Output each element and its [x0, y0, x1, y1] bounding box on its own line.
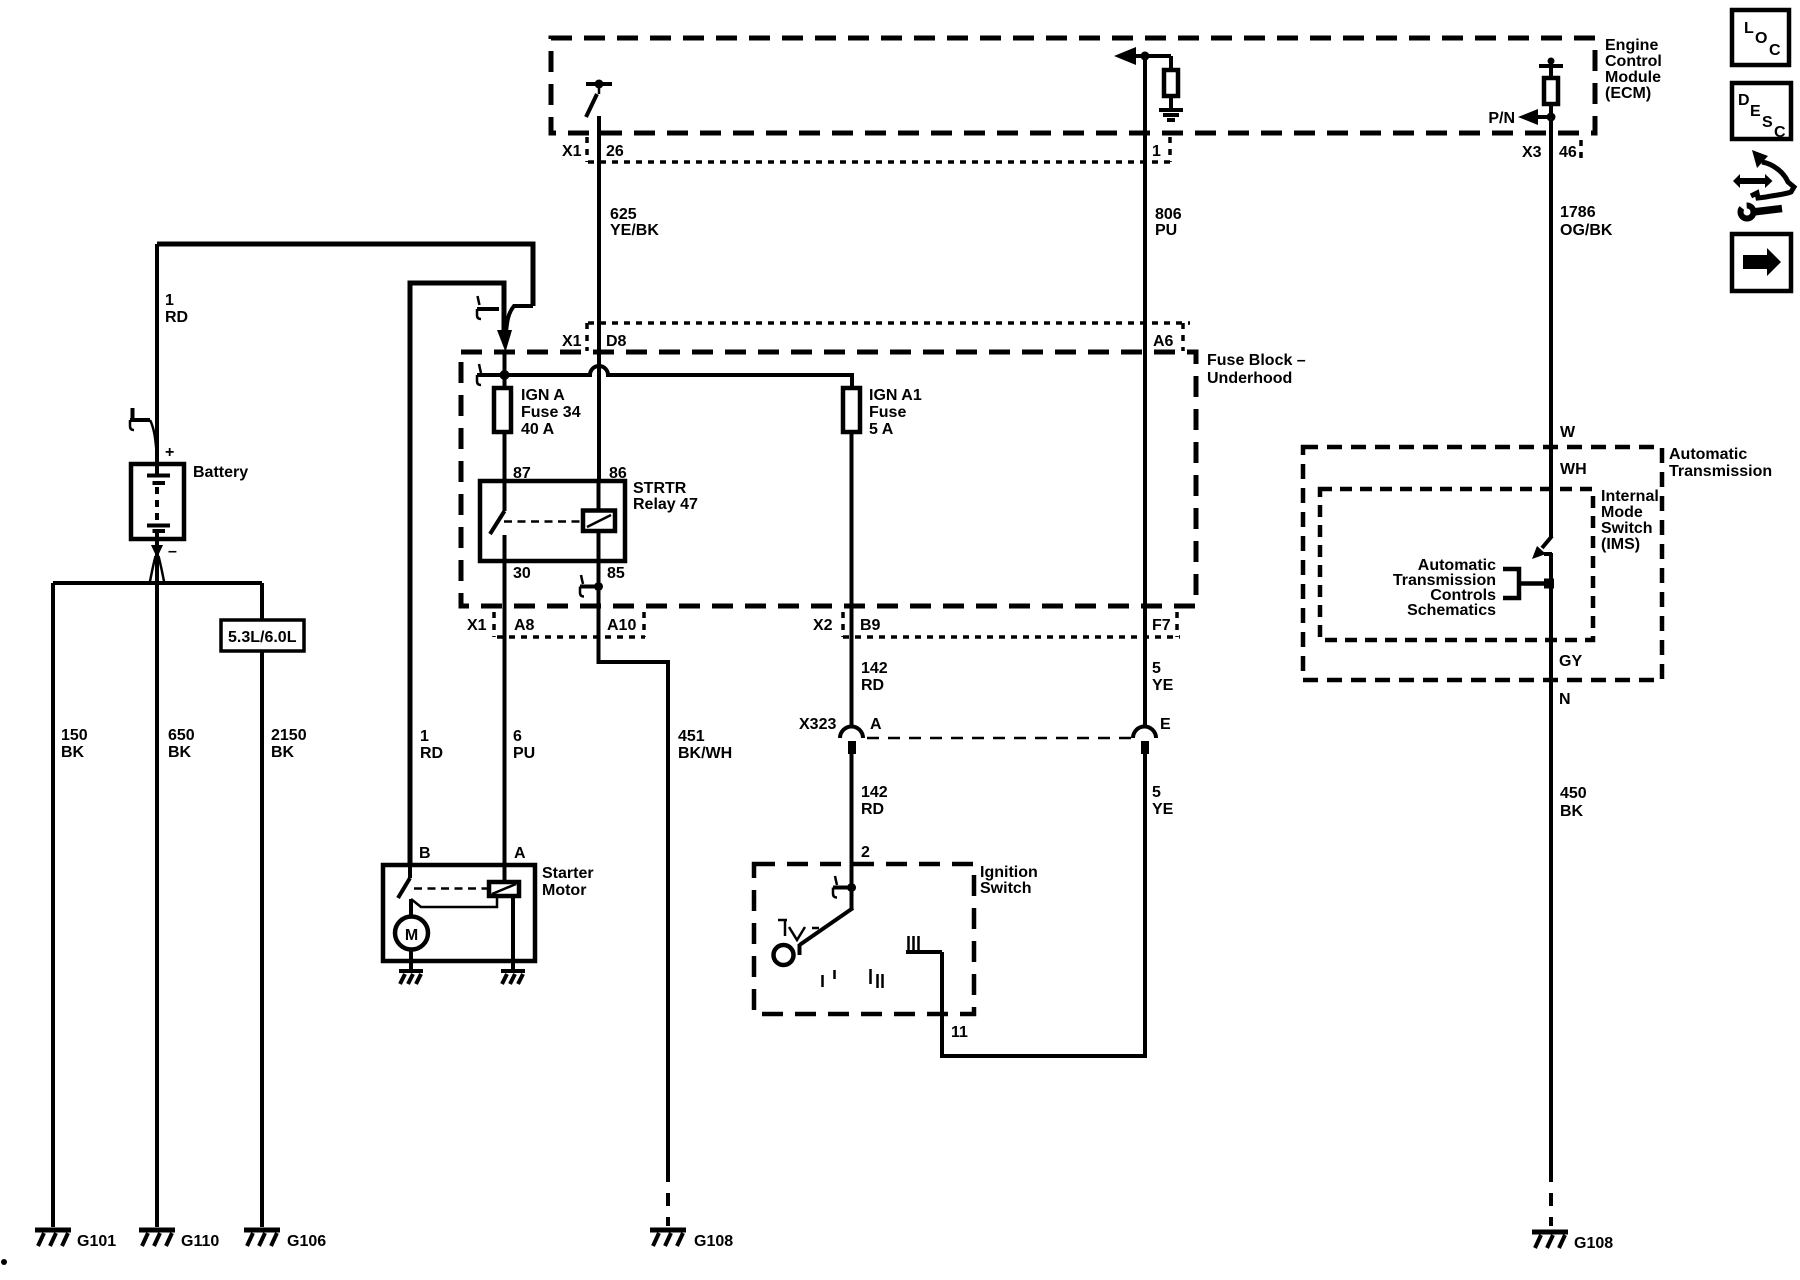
- IMS inner dashed box: [1320, 489, 1593, 640]
- ground G106: [244, 1230, 280, 1246]
- svg-text:5: 5: [1152, 784, 1161, 801]
- svg-text:Fuse 34: Fuse 34: [521, 404, 581, 421]
- svg-text:O: O: [1755, 30, 1767, 47]
- svg-text:YE: YE: [1152, 677, 1174, 694]
- svg-text:S: S: [1762, 114, 1773, 131]
- position mark I: [823, 970, 835, 987]
- svg-text:Internal: Internal: [1601, 488, 1659, 505]
- wire 806 PU (x=1145 from ECM to connector E): [1143, 56, 1147, 727]
- starter coil link dashed: [414, 887, 489, 890]
- ground starter motor left: [399, 971, 423, 984]
- svg-text:150: 150: [61, 727, 88, 744]
- svg-text:Switch: Switch: [1601, 520, 1653, 537]
- wire battery positive feed (1 RD) top run: [157, 244, 533, 306]
- svg-text:142: 142: [861, 784, 888, 801]
- svg-text:142: 142: [861, 660, 888, 677]
- svg-text:Module: Module: [1605, 69, 1661, 86]
- label 451 BK/WH: [678, 728, 732, 762]
- label 1 RD (starter B wire): [420, 728, 443, 762]
- in-line connector hook at fuse block feed: [477, 364, 481, 385]
- label 6 PU: [513, 728, 535, 762]
- label 142 RD (lower): [861, 784, 888, 818]
- svg-text:G106: G106: [287, 1233, 326, 1250]
- svg-text:650: 650: [168, 727, 195, 744]
- svg-text:BK: BK: [61, 744, 85, 761]
- ignition switch contact circle: [774, 945, 794, 965]
- battery in-line connector hook at positive: [130, 408, 157, 452]
- splice at battery negative: [150, 545, 165, 584]
- icon LOC box: [1732, 10, 1789, 65]
- starter solenoid coil: [489, 882, 519, 896]
- label Starter Motor: [542, 865, 594, 899]
- ECM module dashed box: [551, 38, 1595, 133]
- label 806 PU: [1155, 206, 1182, 239]
- label STRTR Relay 47: [633, 480, 698, 513]
- svg-text:M: M: [405, 927, 418, 944]
- svg-text:B: B: [419, 845, 431, 862]
- wire branch to starter B (1 RD): [410, 283, 504, 865]
- svg-text:11: 11: [951, 1024, 968, 1041]
- ground starter solenoid right: [501, 971, 525, 984]
- wire solenoid to ground: [511, 896, 515, 970]
- svg-text:N: N: [1559, 691, 1571, 708]
- junction node at ATCS tap: [1544, 579, 1554, 589]
- label Internal Mode Switch (IMS): [1601, 488, 1659, 553]
- wire battery negative bus: [53, 581, 262, 585]
- label 650 BK: [168, 727, 195, 761]
- label Automatic Transmission Controls Schematics: [1393, 557, 1496, 619]
- svg-text:OG/BK: OG/BK: [1560, 222, 1613, 239]
- ignition switch blade: [800, 888, 854, 956]
- svg-text:X1: X1: [562, 143, 582, 160]
- svg-text:Engine: Engine: [1605, 37, 1658, 54]
- in-line connector hook at ignition feed: [833, 876, 856, 898]
- svg-text:P/N: P/N: [1488, 110, 1515, 127]
- svg-text:D8: D8: [606, 333, 627, 350]
- relay coil: [583, 511, 615, 532]
- svg-text:5.3L/6.0L: 5.3L/6.0L: [228, 629, 297, 646]
- svg-text:L: L: [1744, 20, 1754, 37]
- svg-text:806: 806: [1155, 206, 1182, 223]
- fuse IGN A Fuse 34 40 A: [494, 388, 511, 432]
- svg-text:D: D: [1738, 92, 1750, 109]
- wire ground branch G101: [51, 583, 55, 1227]
- Fuse Block - Underhood dashed box: [461, 352, 1196, 606]
- starter solenoid switch blade: [398, 865, 410, 898]
- wire ground branch G110: [155, 553, 159, 1227]
- svg-text:1786: 1786: [1560, 204, 1596, 221]
- svg-text:C: C: [1774, 124, 1786, 141]
- wire 142 RD fuse IGN A1 to connector A: [850, 432, 854, 727]
- relay switch blade: [490, 481, 505, 561]
- wire 1786 OG/BK (x=1551 down to IMS switch): [1549, 133, 1553, 537]
- resistor inside ECM on 1786 circuit: [1544, 78, 1558, 104]
- svg-text:A8: A8: [514, 617, 535, 634]
- splice funnel into fuse block feed: [497, 306, 533, 352]
- relay coil link dashed: [504, 520, 583, 523]
- svg-text:26: 26: [606, 143, 624, 160]
- svg-text:RD: RD: [861, 801, 884, 818]
- battery: [131, 464, 184, 545]
- svg-text:RD: RD: [861, 677, 884, 694]
- page artifact dot: [1, 1259, 7, 1265]
- svg-text:X323: X323: [799, 716, 836, 733]
- label 1786 OG/BK: [1560, 204, 1613, 239]
- position mark III: [909, 936, 919, 950]
- label 625 YE/BK: [610, 206, 659, 239]
- svg-text:G110: G110: [181, 1233, 219, 1250]
- svg-text:Schematics: Schematics: [1407, 602, 1496, 619]
- svg-text:RD: RD: [420, 745, 443, 762]
- svg-text:Transmission: Transmission: [1669, 463, 1772, 480]
- bracket to Automatic Transmission Controls Schematics: [1503, 569, 1548, 598]
- in-line connector hook at splice: [477, 296, 499, 319]
- connector X323 pin A: [840, 727, 863, 755]
- svg-text:(ECM): (ECM): [1605, 85, 1651, 102]
- label Fuse Block - Underhood: [1207, 352, 1306, 387]
- svg-text:IGN A: IGN A: [521, 387, 565, 404]
- svg-text:Starter: Starter: [542, 865, 594, 882]
- svg-text:F7: F7: [1152, 617, 1171, 634]
- svg-text:BK/WH: BK/WH: [678, 745, 732, 762]
- svg-text:E: E: [1750, 103, 1761, 120]
- svg-text:WH: WH: [1560, 461, 1587, 478]
- svg-text:BK: BK: [168, 744, 192, 761]
- wire dashed tail to G108 (middle): [666, 1169, 670, 1226]
- svg-text:85: 85: [607, 565, 625, 582]
- svg-text:5 A: 5 A: [869, 421, 894, 438]
- wire 142 RD connector A to ignition switch: [850, 754, 854, 889]
- svg-text:C: C: [1769, 42, 1781, 59]
- svg-text:(IMS): (IMS): [1601, 536, 1640, 553]
- wire 1786 inside ECM: [1549, 104, 1553, 133]
- tag 5.3L/6.0L: [221, 620, 304, 651]
- icon wiring harness with wrench: [1733, 150, 1794, 219]
- label Engine Control Module (ECM): [1605, 37, 1662, 102]
- svg-text:RD: RD: [165, 309, 188, 326]
- wire dashed tail to G108 (right): [1549, 1169, 1553, 1226]
- svg-text:5: 5: [1152, 660, 1161, 677]
- ground G108 (middle): [650, 1230, 686, 1246]
- ground G101: [35, 1230, 71, 1246]
- svg-text:625: 625: [610, 206, 637, 223]
- svg-text:Fuse: Fuse: [869, 404, 906, 421]
- svg-text:G101: G101: [77, 1233, 116, 1250]
- svg-text:–: –: [168, 543, 177, 560]
- svg-text:BK: BK: [1560, 803, 1584, 820]
- svg-text:Battery: Battery: [193, 464, 248, 481]
- icon forward arrow box: [1732, 234, 1791, 291]
- svg-text:X1: X1: [562, 333, 582, 350]
- label 142 RD (upper): [861, 660, 888, 694]
- svg-text:X1: X1: [467, 617, 487, 634]
- wire 5 YE connector E to ignition switch pin 11: [942, 754, 1145, 1056]
- in-line connector hook on 85 wire: [580, 575, 603, 597]
- svg-text:451: 451: [678, 728, 705, 745]
- svg-text:1: 1: [1152, 143, 1161, 160]
- svg-text:30: 30: [513, 565, 531, 582]
- wire ignition switch III contact to pin 11: [906, 950, 942, 954]
- svg-text:X2: X2: [813, 617, 833, 634]
- relay STRTR Relay 47 box: [480, 481, 625, 561]
- label 150 BK: [61, 727, 88, 761]
- label 1 RD (battery feed): [165, 292, 188, 326]
- svg-text:G108: G108: [694, 1233, 733, 1250]
- svg-text:Fuse Block –: Fuse Block –: [1207, 352, 1306, 369]
- svg-text:Control: Control: [1605, 53, 1662, 70]
- svg-text:PU: PU: [1155, 222, 1177, 239]
- wire relay pin 85 stub: [597, 531, 601, 561]
- wire ECM pin X1-26 internal: [597, 116, 601, 133]
- ECM internal switch blade: [586, 84, 599, 117]
- wire relay pin 86 stub: [597, 481, 601, 511]
- svg-text:IGN A1: IGN A1: [869, 387, 922, 404]
- junction node on IGN A feed: [500, 370, 510, 380]
- svg-text:1: 1: [165, 292, 174, 309]
- starter motor box: [383, 865, 535, 961]
- label 5 YE (lower): [1152, 784, 1174, 818]
- svg-text:46: 46: [1559, 144, 1577, 161]
- svg-text:6: 6: [513, 728, 522, 745]
- wire relay 85 to A10 and 451 BK/WH run: [599, 561, 669, 1169]
- wire relay pin 30 to starter A (6 PU): [503, 561, 507, 865]
- wire motor to ground: [409, 950, 413, 971]
- svg-text:Ignition: Ignition: [980, 864, 1038, 881]
- label 5 YE (upper): [1152, 660, 1174, 694]
- ECM internal B+ node at X3 (bar with dot): [1539, 58, 1563, 79]
- svg-text:A10: A10: [607, 617, 636, 634]
- svg-text:PU: PU: [513, 745, 535, 762]
- wire IGN A to IGN A1 fuse (with hop over 625 wire): [477, 366, 852, 388]
- connector X323 pin E: [1133, 727, 1156, 755]
- ground symbol inside ECM: [1159, 110, 1183, 120]
- position mark II: [871, 969, 883, 988]
- svg-text:Underhood: Underhood: [1207, 370, 1292, 387]
- svg-text:450: 450: [1560, 785, 1587, 802]
- label IGN A Fuse 34 40 A: [521, 387, 581, 438]
- label Ignition Switch: [980, 864, 1038, 897]
- svg-text:A: A: [870, 716, 882, 733]
- svg-text:E: E: [1160, 716, 1171, 733]
- ECM internal B+ node symbol (bar with dot): [586, 80, 612, 89]
- ECM connector pin row: [587, 137, 1581, 162]
- svg-text:A: A: [514, 845, 526, 862]
- ground G108 (right): [1532, 1232, 1568, 1248]
- svg-text:Switch: Switch: [980, 880, 1032, 897]
- svg-text:A6: A6: [1153, 333, 1174, 350]
- wire IMS to ground run: [1549, 553, 1553, 1169]
- svg-text:B9: B9: [860, 617, 881, 634]
- svg-text:YE/BK: YE/BK: [610, 222, 659, 239]
- svg-text:1: 1: [420, 728, 429, 745]
- ignition switch dashed box: [754, 864, 974, 1014]
- svg-text:40 A: 40 A: [521, 421, 555, 438]
- icon DESC box: [1732, 83, 1791, 141]
- svg-text:Motor: Motor: [542, 882, 586, 899]
- transmission outer dashed box: [1303, 447, 1662, 680]
- fuse block bottom connector row: [494, 612, 1180, 637]
- svg-text:BK: BK: [271, 744, 295, 761]
- wire starter A internal: [503, 865, 507, 882]
- label 2150 BK: [271, 727, 307, 761]
- svg-text:2: 2: [861, 844, 870, 861]
- ignition lock position icon: [778, 920, 819, 940]
- svg-text:G108: G108: [1574, 1235, 1613, 1252]
- wire splice to IGN A fuse: [503, 350, 507, 388]
- svg-text:+: +: [165, 444, 174, 461]
- svg-text:Automatic: Automatic: [1669, 446, 1747, 463]
- wire battery positive (x=157): [155, 244, 159, 464]
- IMS switch blade with arrow: [1532, 536, 1552, 559]
- ground G110: [139, 1230, 175, 1246]
- svg-text:X3: X3: [1522, 144, 1542, 161]
- ECM internal resistor to ground (pull-up on 806 PU): [1114, 47, 1178, 110]
- svg-text:Mode: Mode: [1601, 504, 1643, 521]
- P/N label and arrow inside ECM: [1488, 109, 1555, 127]
- starter solenoid linkage: [411, 896, 497, 907]
- label Automatic Transmission: [1669, 446, 1772, 480]
- dashed connector line X323: [867, 737, 1131, 740]
- wire IGN A fuse to relay pin 87: [503, 432, 507, 481]
- fuse block top connector row X1 D8 / A6: [587, 323, 1190, 351]
- svg-text:STRTR: STRTR: [633, 480, 687, 497]
- svg-text:Relay 47: Relay 47: [633, 496, 698, 513]
- svg-text:2150: 2150: [271, 727, 307, 744]
- motor M: [395, 899, 428, 950]
- wire ground branch G106: [260, 583, 264, 1227]
- svg-text:GY: GY: [1559, 653, 1582, 670]
- label 450 BK: [1560, 785, 1587, 820]
- wire 625 YE/BK (x=599 down to relay pin 86): [597, 133, 601, 481]
- fuse IGN A1 Fuse 5 A: [843, 388, 860, 432]
- label IGN A1 Fuse 5 A: [869, 387, 922, 438]
- svg-text:YE: YE: [1152, 801, 1174, 818]
- svg-text:W: W: [1560, 424, 1576, 441]
